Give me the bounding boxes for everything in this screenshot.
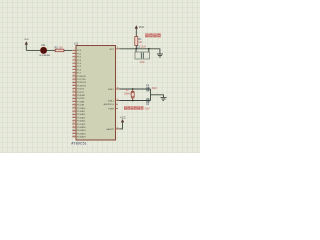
svg-text:12: 12	[73, 81, 75, 83]
svg-text:P2.2/A10: P2.2/A10	[77, 107, 86, 110]
wire XTAL1 loop bottom	[119, 100, 150, 102]
svg-text:36: 36	[73, 135, 75, 137]
svg-text:22: 22	[73, 103, 75, 105]
svg-text:16: 16	[73, 94, 75, 96]
right pin XTAL2 (18)	[108, 87, 119, 91]
capacitor C3 (electrolytic, in box)	[135, 49, 150, 64]
svg-text:P3.1/TXD: P3.1/TXD	[77, 79, 86, 81]
svg-text:3: 3	[74, 55, 75, 57]
right pin XTAL1 (19)	[108, 99, 119, 103]
power VCC terminal EA	[120, 115, 126, 122]
svg-text:12MHZ: 12MHZ	[124, 94, 132, 96]
power VCC terminal	[135, 25, 145, 37]
svg-text:25: 25	[73, 113, 75, 115]
svg-text:P2.6/A14: P2.6/A14	[77, 120, 86, 123]
red label crystal circuit	[124, 106, 151, 110]
svg-text:26: 26	[73, 116, 75, 118]
svg-text:AT89C51: AT89C51	[71, 141, 86, 145]
node dot top	[132, 88, 134, 90]
capacitor C1	[146, 84, 158, 91]
svg-text:27: 27	[73, 119, 75, 121]
resistor R2	[55, 47, 64, 52]
red label reset circuit	[145, 33, 161, 37]
svg-text:PSEN: PSEN	[108, 108, 114, 110]
svg-text:U1: U1	[74, 42, 78, 46]
capacitor C2	[146, 98, 150, 106]
node dot B	[148, 48, 150, 50]
svg-text:30pF: 30pF	[145, 107, 151, 110]
ground (reset)	[157, 54, 163, 57]
resistor R1	[135, 37, 143, 49]
svg-text:P2.7/A15: P2.7/A15	[77, 123, 86, 126]
svg-text:P2.3/A11: P2.3/A11	[77, 110, 86, 113]
svg-text:23: 23	[73, 107, 75, 109]
svg-text:EA/VPP: EA/VPP	[107, 128, 115, 131]
svg-text:39: 39	[73, 126, 75, 128]
svg-text:1: 1	[74, 49, 75, 51]
svg-text:14: 14	[73, 87, 75, 89]
svg-text:2: 2	[74, 52, 75, 54]
svg-text:P0.3/AD3: P0.3/AD3	[77, 136, 86, 139]
svg-text:8: 8	[74, 71, 75, 73]
svg-text:VCC: VCC	[139, 25, 145, 29]
svg-text:15: 15	[73, 91, 75, 93]
svg-text:30pF: 30pF	[152, 87, 158, 90]
svg-text:10uF: 10uF	[139, 61, 145, 64]
svg-text:XTAL1: XTAL1	[108, 100, 115, 103]
right pin PSEN (29)	[108, 108, 117, 110]
svg-text:P3.5/T1: P3.5/T1	[77, 92, 85, 94]
left pin numbers	[73, 49, 75, 137]
svg-text:11: 11	[73, 78, 75, 80]
svg-text:4: 4	[74, 59, 75, 61]
svg-text:7: 7	[74, 68, 75, 70]
svg-text:LS1: LS1	[41, 44, 46, 47]
node dot A	[135, 48, 137, 50]
MCU U1 body	[71, 42, 115, 146]
svg-text:SOUNDER: SOUNDER	[39, 55, 50, 57]
svg-text:13: 13	[73, 84, 75, 86]
svg-text:P3.3/INT1: P3.3/INT1	[77, 85, 87, 87]
svg-text:P3.0/RXD: P3.0/RXD	[77, 76, 86, 78]
left pin labels inside chip	[77, 50, 87, 138]
svg-text:6: 6	[74, 65, 75, 67]
svg-text:P3.2/INT0: P3.2/INT0	[77, 82, 87, 84]
power VDD terminal	[24, 39, 29, 50]
svg-text:38: 38	[73, 129, 75, 131]
wire caps join to ground	[150, 89, 152, 101]
sounder LS1	[39, 44, 50, 57]
svg-text:VDD: VDD	[24, 39, 29, 41]
left pins (28 stubs with numbers)	[72, 50, 76, 136]
svg-text:17: 17	[73, 97, 75, 99]
svg-text:P0.0/AD0: P0.0/AD0	[77, 126, 86, 129]
svg-text:28: 28	[73, 123, 75, 125]
svg-text:5: 5	[74, 62, 75, 64]
svg-text:37: 37	[73, 132, 75, 134]
svg-text:P2.4/A12: P2.4/A12	[77, 113, 86, 116]
svg-text:21: 21	[73, 100, 75, 102]
node dot bottom	[132, 100, 134, 102]
svg-text:VCC: VCC	[120, 115, 126, 119]
svg-text:P3.6/WR: P3.6/WR	[77, 95, 86, 97]
svg-text:ALE/PROG: ALE/PROG	[104, 103, 115, 106]
svg-text:P2.5/A13: P2.5/A13	[77, 116, 86, 119]
svg-text:P0.2/AD2: P0.2/AD2	[77, 132, 86, 135]
svg-text:24: 24	[73, 110, 75, 112]
svg-text:P2.0/A8: P2.0/A8	[77, 100, 85, 103]
wire RST to ground	[119, 49, 160, 54]
svg-text:P2.1/A9: P2.1/A9	[77, 104, 85, 107]
right pin RST (9)	[110, 47, 119, 51]
svg-text:22uF: 22uF	[141, 46, 147, 49]
wire VDD to sounder	[26, 49, 40, 51]
svg-text:P3.7/RD: P3.7/RD	[77, 98, 85, 100]
svg-text:P3.4/T0: P3.4/T0	[77, 89, 85, 91]
wire EA to VCC	[119, 122, 122, 129]
wire sounder to R2	[47, 49, 55, 51]
svg-text:XTAL2: XTAL2	[108, 88, 115, 91]
wire XTAL2 loop top	[119, 88, 150, 90]
ground (crystal)	[161, 98, 167, 101]
crystal X1	[124, 89, 135, 101]
svg-text:10: 10	[73, 75, 75, 77]
right pin ALE (30)	[104, 103, 118, 106]
svg-text:P0.1/AD1: P0.1/AD1	[77, 129, 86, 132]
wire R2 to pin P1.0	[64, 49, 72, 51]
right pin EA (31)	[107, 127, 120, 131]
